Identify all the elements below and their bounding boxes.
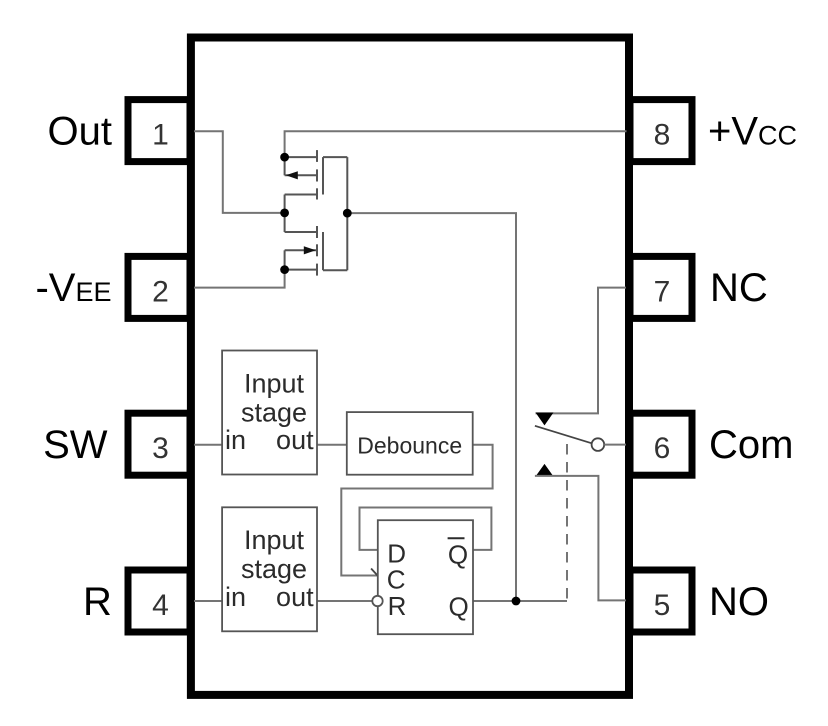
svg-text:Out: Out bbox=[48, 109, 112, 153]
svg-text:2: 2 bbox=[152, 275, 169, 308]
wire NO contact to pin5 bbox=[535, 476, 626, 601]
wire -Vee to NMOS source bbox=[194, 270, 285, 288]
svg-text:+VCC: +VCC bbox=[708, 109, 797, 153]
svg-text:Debounce: Debounce bbox=[357, 433, 462, 459]
svg-text:3: 3 bbox=[152, 432, 169, 465]
pin 1 box bbox=[128, 100, 190, 162]
wire input stage 2 to R bubble bbox=[317, 600, 372, 602]
NO contact triangle bbox=[536, 464, 554, 477]
svg-text:Com: Com bbox=[709, 423, 793, 467]
wire pin4 to input stage 2 bbox=[194, 600, 222, 602]
pin 4 box bbox=[128, 570, 190, 632]
NC contact triangle bbox=[536, 413, 554, 426]
svg-text:out: out bbox=[276, 582, 314, 612]
block debounce bbox=[347, 412, 473, 475]
svg-text:-VEE: -VEE bbox=[35, 266, 111, 310]
wire pin7 to NC contact bbox=[536, 288, 627, 414]
svg-text:R: R bbox=[83, 580, 112, 624]
node dot PMOS source bbox=[280, 153, 289, 162]
node dot Q-gate junction bbox=[512, 597, 521, 606]
svg-text:Input: Input bbox=[244, 368, 305, 398]
pin 8 box bbox=[630, 100, 692, 162]
svg-text:1: 1 bbox=[152, 119, 169, 152]
switch pole bbox=[535, 426, 592, 444]
clock edge slash bbox=[371, 569, 384, 584]
svg-text:R: R bbox=[388, 591, 407, 621]
svg-text:Q: Q bbox=[448, 592, 468, 622]
NMOS body arrow bbox=[304, 246, 316, 254]
wire pivot to pin6 bbox=[604, 444, 626, 446]
node dot NMOS source bbox=[280, 265, 289, 274]
svg-text:7: 7 bbox=[654, 275, 671, 308]
node dot gate bbox=[343, 209, 352, 218]
wire input stage 1 to debounce bbox=[317, 444, 347, 446]
svg-text:8: 8 bbox=[654, 119, 671, 152]
wire pin3 to input stage 1 bbox=[194, 444, 222, 446]
svg-text:C: C bbox=[387, 565, 406, 595]
svg-text:stage: stage bbox=[241, 554, 307, 584]
wire debounce to clock input bbox=[341, 445, 492, 576]
svg-text:SW: SW bbox=[43, 423, 108, 467]
switch pivot circle bbox=[592, 438, 605, 451]
svg-text:NC: NC bbox=[710, 266, 768, 310]
wire pin1 to output node bbox=[194, 131, 285, 213]
dashed actuator link bbox=[566, 444, 568, 600]
svg-text:Input: Input bbox=[244, 525, 305, 555]
svg-text:in: in bbox=[225, 425, 246, 455]
pin 2 box bbox=[128, 256, 190, 318]
wire Q output bbox=[473, 600, 567, 602]
svg-text:6: 6 bbox=[654, 432, 671, 465]
pin 6 box bbox=[630, 413, 692, 475]
svg-text:out: out bbox=[276, 425, 314, 455]
wire +Vcc rail bbox=[285, 131, 628, 157]
svg-text:Q: Q bbox=[448, 540, 468, 570]
pin 3 box bbox=[128, 413, 190, 475]
svg-text:in: in bbox=[225, 582, 246, 612]
flip-flop U1 bbox=[378, 520, 473, 634]
R inversion bubble bbox=[372, 596, 382, 606]
wire gate node to Q bbox=[347, 213, 516, 601]
node dot output bbox=[280, 209, 289, 218]
transistor Q2 (NMOS) bbox=[285, 213, 348, 276]
PMOS body arrow bbox=[286, 171, 298, 179]
svg-text:4: 4 bbox=[152, 589, 169, 622]
pin 5 box bbox=[630, 570, 692, 632]
svg-text:stage: stage bbox=[241, 397, 307, 427]
block input stage 1 bbox=[222, 351, 317, 475]
IC body outline bbox=[191, 38, 629, 695]
gate node vertical bbox=[346, 157, 348, 270]
block input stage 2 bbox=[222, 507, 317, 631]
wire D to Qbar feedback loop bbox=[360, 508, 492, 550]
transistor Q1 (PMOS) bbox=[285, 150, 348, 213]
pin 7 box bbox=[630, 256, 692, 318]
svg-text:5: 5 bbox=[654, 589, 671, 622]
svg-text:NO: NO bbox=[709, 580, 769, 624]
